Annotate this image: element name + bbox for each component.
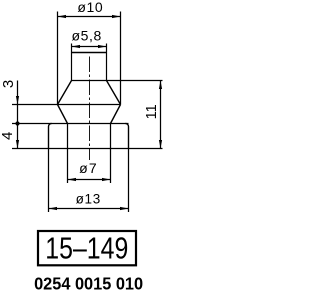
svg-text:4: 4 — [0, 132, 16, 140]
dia10 ext right — [120, 12, 122, 105]
svg-text:ø7: ø7 — [79, 160, 98, 176]
dia13 ext right — [128, 149, 130, 213]
arrow dia5.8 left — [72, 45, 81, 48]
dia13 dim line — [49, 208, 129, 210]
svg-text:15–149: 15–149 — [45, 232, 128, 266]
taper right — [111, 105, 121, 124]
svg-text:11: 11 — [144, 104, 160, 119]
dot 3/4 junction — [15, 121, 19, 125]
arrow 3 down — [16, 96, 19, 105]
dia5.8 dim line — [72, 46, 107, 48]
arrow dia10 right — [112, 15, 121, 18]
flange bottom line — [12, 148, 163, 150]
dim 11 line — [160, 81, 162, 149]
arrow dia10 left — [58, 15, 67, 18]
arrow 4 down — [16, 140, 19, 149]
flange top line — [12, 123, 129, 125]
svg-text:0254 0015 010: 0254 0015 010 — [34, 274, 143, 294]
part top face — [72, 52, 107, 54]
shoulder line — [72, 80, 163, 82]
flange right corner arc — [126, 124, 129, 127]
flare right — [107, 81, 121, 105]
arrow dia13 right — [120, 207, 129, 210]
svg-text:3: 3 — [0, 80, 17, 88]
dim 3-4 line — [17, 81, 19, 149]
dia7 dim line — [68, 179, 111, 181]
dia13 ext left — [48, 149, 50, 213]
flange left side — [48, 127, 50, 149]
part wall right (ext to dim) — [106, 44, 108, 81]
dia10 ext left — [57, 12, 59, 105]
svg-text:ø5,8: ø5,8 — [71, 28, 101, 44]
arrow dia5.8 right — [98, 45, 107, 48]
svg-text:ø10: ø10 — [77, 0, 103, 15]
svg-text:ø13: ø13 — [76, 191, 101, 206]
centerline — [89, 57, 91, 161]
dia10 dim line — [58, 16, 121, 18]
part wall left (ext to dim) — [71, 44, 73, 81]
part number box — [38, 231, 136, 265]
dia7 ext left — [67, 124, 69, 184]
flange right side — [128, 127, 130, 149]
dia7 ext right — [110, 124, 112, 184]
flare left — [58, 81, 72, 105]
arrow 11 up — [159, 81, 162, 90]
arrow 11 down — [159, 140, 162, 149]
arrow dia7 left — [68, 178, 77, 181]
widest edge line — [12, 104, 121, 106]
arrow dia13 left — [49, 207, 58, 210]
arrow dia7 right — [102, 178, 111, 181]
flange left corner arc — [49, 124, 52, 127]
taper left — [58, 105, 68, 124]
